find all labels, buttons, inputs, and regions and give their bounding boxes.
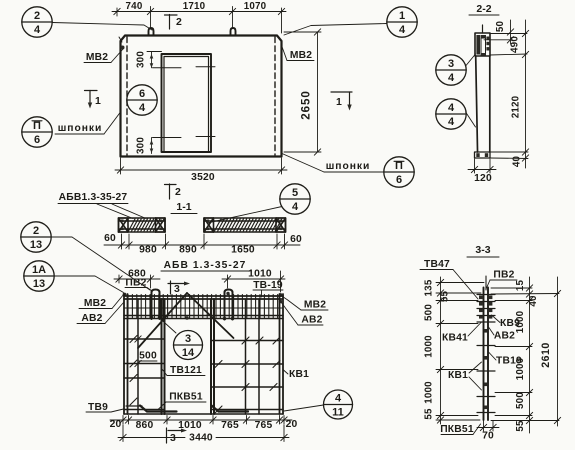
cage vertical bar v1 [137, 299, 139, 414]
callout 3/14 [174, 331, 203, 360]
dim 300 top at door [147, 52, 162, 68]
bottom bent bar PKV51 left [140, 406, 177, 412]
svg-text:2: 2 [33, 225, 39, 237]
svg-text:50: 50 [495, 21, 506, 33]
section 1-1 dim chain [104, 234, 300, 249]
callout 5/4 [280, 184, 310, 214]
section 2-2 loop wire top [482, 25, 484, 33]
svg-text:300: 300 [136, 51, 147, 68]
svg-text:АБВ 1.3-35-27: АБВ 1.3-35-27 [164, 260, 247, 271]
callout 2/4 [22, 7, 52, 37]
3-3 right inner dim chain [491, 277, 559, 433]
3-3 outer dim 2610 [554, 277, 560, 426]
bottom-left corner plate [126, 405, 142, 407]
svg-text:П: П [33, 120, 41, 132]
cage mesh bottom chord [124, 316, 283, 319]
callout 4/11 [324, 390, 353, 419]
cage door edge left [162, 299, 165, 414]
section mark 2 top [165, 15, 178, 30]
svg-text:500: 500 [139, 351, 157, 362]
svg-text:55: 55 [515, 420, 526, 432]
diagonal bar lambda left leg [138, 293, 187, 348]
svg-text:3: 3 [448, 58, 454, 70]
svg-text:1070: 1070 [244, 1, 267, 12]
svg-text:765: 765 [221, 420, 239, 431]
svg-text:1000: 1000 [424, 335, 435, 358]
section mark 1 left [85, 91, 98, 109]
svg-text:60: 60 [290, 234, 302, 245]
svg-text:2650: 2650 [300, 90, 313, 119]
loop base dots [150, 316, 235, 321]
dim 680 [114, 275, 160, 288]
svg-text:740: 740 [126, 1, 143, 12]
svg-text:55: 55 [440, 291, 451, 303]
svg-text:1010: 1010 [248, 269, 272, 280]
svg-text:1000: 1000 [424, 381, 435, 404]
svg-text:15: 15 [515, 280, 526, 292]
bar 3-3 main verticals [484, 288, 489, 421]
cage bottom dim chain [110, 416, 292, 425]
lifting loop 2 in cage [225, 290, 233, 320]
callout 3/4 [436, 55, 466, 85]
section mark 2 above 1-1 [165, 184, 177, 199]
svg-text:40: 40 [512, 156, 523, 168]
svg-text:13: 13 [33, 278, 45, 290]
anchor dots cage corners [123, 292, 283, 303]
svg-text:860: 860 [136, 420, 154, 431]
dim 3520 bottom [115, 158, 287, 174]
leader 1/4 [284, 24, 387, 36]
leader 3/14 to loop [160, 319, 176, 334]
svg-text:шпонки: шпонки [326, 161, 371, 172]
svg-text:3: 3 [185, 333, 191, 345]
svg-text:3: 3 [170, 432, 176, 444]
bar 3-3 mesh squares [479, 296, 492, 410]
svg-text:1000: 1000 [515, 357, 526, 380]
svg-text:3520: 3520 [191, 172, 215, 183]
section 2-2 top embed box [475, 33, 490, 56]
svg-text:500: 500 [424, 304, 435, 321]
svg-text:4: 4 [399, 24, 406, 36]
svg-text:20: 20 [110, 419, 122, 430]
svg-text:шпонки: шпонки [58, 123, 103, 134]
panel corner notch left [119, 37, 122, 44]
svg-text:4: 4 [139, 102, 146, 114]
svg-text:13: 13 [30, 239, 42, 251]
svg-text:1: 1 [399, 10, 405, 22]
callout 1/4 [387, 7, 417, 37]
svg-text:300: 300 [136, 137, 147, 154]
section 2-2 panel strip body [476, 56, 490, 152]
door hinge mark top-right [196, 66, 215, 68]
beam 1-1 right segment [204, 218, 286, 232]
svg-text:5: 5 [292, 187, 298, 199]
svg-text:6: 6 [396, 174, 402, 186]
svg-text:40: 40 [528, 295, 539, 307]
lifting loop 1 in cage [152, 290, 160, 320]
svg-text:1А: 1А [32, 264, 46, 276]
svg-text:1710: 1710 [183, 1, 206, 12]
svg-text:890: 890 [179, 245, 197, 256]
3-3 left dim chain [436, 277, 484, 424]
cage vertical bars right of door [246, 299, 260, 414]
svg-text:АВ2: АВ2 [494, 331, 515, 342]
lifting hook left [149, 28, 154, 35]
bar 3-3 stirrup ticks [477, 295, 495, 413]
svg-text:60: 60 [104, 233, 116, 244]
svg-text:2: 2 [175, 186, 181, 198]
cage door edge right [211, 299, 214, 414]
top dim line [112, 7, 286, 34]
anchor dot MB2 left [121, 46, 125, 50]
svg-text:120: 120 [474, 173, 492, 184]
svg-text:1-1: 1-1 [176, 201, 191, 213]
svg-text:МВ2: МВ2 [84, 298, 106, 309]
svg-text:765: 765 [255, 420, 273, 431]
callout II/6 left [22, 117, 52, 147]
cage horizontal bar rows [124, 339, 283, 414]
cage left edge bars [124, 294, 128, 414]
svg-text:КВ1: КВ1 [289, 369, 309, 380]
callout 2/13 [21, 222, 51, 252]
svg-text:6: 6 [139, 88, 145, 100]
svg-text:4: 4 [448, 102, 455, 114]
svg-text:2: 2 [34, 10, 40, 22]
svg-text:6: 6 [34, 134, 40, 146]
bottom bent bar PKV51 right [212, 406, 249, 412]
section mark 3 top [168, 281, 190, 294]
panel inner dashed edge left [126, 37, 128, 155]
svg-text:2120: 2120 [511, 95, 522, 118]
svg-text:1650: 1650 [231, 245, 255, 256]
callout 4/4 [436, 99, 466, 129]
door opening inner [164, 57, 209, 153]
cage mesh mid bar [124, 307, 283, 309]
dim 3440 [118, 425, 289, 442]
svg-text:500: 500 [515, 392, 526, 409]
section 2-2 dim chain 50/490 [484, 20, 529, 168]
svg-text:АВ2: АВ2 [301, 315, 322, 326]
svg-text:4: 4 [335, 392, 342, 404]
svg-text:20: 20 [286, 419, 298, 430]
svg-text:55: 55 [424, 408, 435, 420]
svg-text:3440: 3440 [189, 433, 213, 444]
svg-text:4: 4 [448, 116, 455, 128]
svg-text:490: 490 [510, 36, 521, 53]
svg-text:ПВ2: ПВ2 [125, 278, 146, 289]
panel inner dashed edge right [274, 37, 276, 155]
svg-text:3-3: 3-3 [475, 244, 490, 256]
svg-text:4: 4 [448, 72, 455, 84]
lifting hook right [231, 28, 236, 35]
svg-text:КВ1: КВ1 [448, 370, 468, 381]
section 2-2 dim 120 [468, 159, 496, 173]
svg-text:980: 980 [139, 245, 157, 256]
door hinge mark bottom-right [196, 136, 215, 138]
beam 1-1 left segment [119, 218, 166, 232]
callout 6/4 [127, 85, 157, 115]
cage mesh vertical ticks [128, 295, 278, 319]
svg-text:ТВ47: ТВ47 [424, 259, 450, 270]
dim 1010 top [222, 271, 285, 292]
bar 3-3 loop wire [485, 276, 487, 290]
section mark 3 bottom [167, 428, 188, 443]
svg-text:АВ2: АВ2 [81, 313, 102, 324]
section mark 1 right [331, 92, 352, 111]
dim 70 [477, 421, 499, 431]
svg-text:1: 1 [95, 95, 101, 107]
svg-text:АБВ1.3-35-27: АБВ1.3-35-27 [59, 192, 128, 203]
svg-text:ПВ2: ПВ2 [493, 270, 514, 281]
door opening outer [162, 54, 212, 152]
weld tick marks on cage bars [130, 336, 280, 414]
svg-text:14: 14 [182, 347, 195, 359]
dim 2650 right [284, 29, 321, 155]
leader 2/4 [53, 23, 153, 31]
svg-text:ТВ121: ТВ121 [170, 365, 202, 376]
svg-text:ПКВ51: ПКВ51 [169, 392, 203, 403]
door hinge mark bottom-left [153, 137, 182, 139]
svg-text:3: 3 [174, 283, 180, 295]
svg-text:КВ41: КВ41 [442, 333, 468, 344]
dim 500 cage [135, 336, 141, 367]
panel outline [121, 36, 282, 157]
svg-text:2610: 2610 [540, 342, 552, 368]
cage top chord [124, 296, 283, 299]
callout 1A/13 [24, 261, 54, 291]
svg-text:135: 135 [424, 279, 435, 296]
callout II/6 right [384, 157, 414, 187]
svg-text:ТВ-19: ТВ-19 [253, 280, 283, 291]
svg-text:ПКВ51: ПКВ51 [440, 424, 474, 435]
svg-text:МВ2: МВ2 [86, 52, 108, 63]
door hinge mark top-left [153, 67, 182, 69]
svg-text:1: 1 [336, 96, 342, 108]
svg-text:2: 2 [176, 16, 182, 28]
svg-text:11: 11 [332, 407, 344, 419]
diagonal bar lambda right leg [187, 293, 234, 338]
svg-text:ТВ9: ТВ9 [88, 402, 108, 413]
section 2-2 bottom embed box [475, 152, 491, 158]
svg-text:2-2: 2-2 [476, 3, 491, 15]
svg-text:МВ2: МВ2 [290, 50, 312, 61]
svg-text:МВ2: МВ2 [304, 300, 326, 311]
svg-text:70: 70 [482, 431, 494, 442]
svg-text:1000: 1000 [515, 310, 526, 333]
cage right edge bars [280, 294, 284, 414]
svg-text:4: 4 [292, 201, 299, 213]
svg-text:4: 4 [34, 24, 41, 36]
dim 300 bottom at door [150, 138, 154, 154]
